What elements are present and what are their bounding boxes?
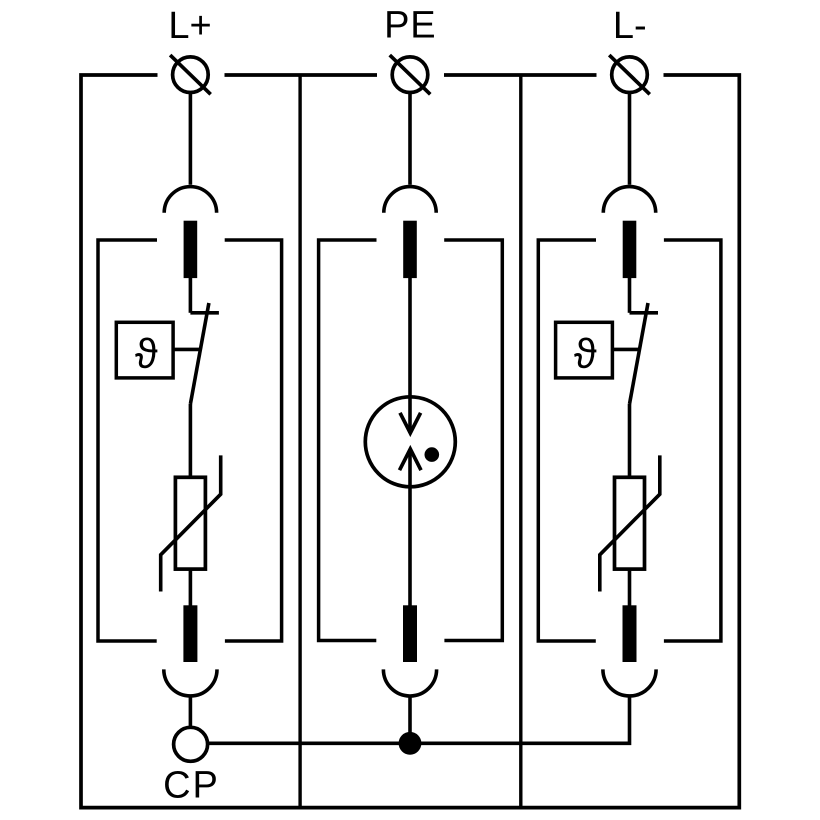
- svg-text:PE: PE: [384, 4, 436, 46]
- wire varistor to pin L+: [189, 569, 193, 606]
- wire CP bus: [208, 696, 630, 743]
- module inner box PE: [319, 240, 503, 641]
- svg-text:CP: CP: [163, 764, 220, 806]
- junction dot PE: [399, 732, 422, 755]
- wire terminal PE down: [408, 92, 412, 185]
- wire varistor to pin L-: [628, 569, 632, 606]
- varistor L-: [600, 455, 660, 591]
- enclosure outer border: [81, 75, 739, 808]
- wire spark gap to pin PE: [408, 449, 412, 606]
- wire terminal L+ down: [189, 92, 193, 185]
- wire switch to varistor L-: [628, 404, 632, 478]
- svg-text:L-: L-: [613, 5, 647, 47]
- wire pin to switch L+: [189, 277, 193, 313]
- mechanical link L+: [173, 348, 201, 352]
- spark gap trigger dot: [425, 447, 440, 462]
- thermal disconnect switch L-: [630, 303, 659, 404]
- wire PE arc down to junction: [408, 696, 412, 743]
- spark gap PE: [365, 397, 455, 487]
- divider wall between L+ and PE sections: [298, 75, 301, 808]
- thermal disconnect switch L+: [190, 303, 219, 404]
- svg-text:ϑ: ϑ: [135, 330, 158, 377]
- module inner box L-: [538, 240, 721, 641]
- plug socket arc bottom PE: [383, 669, 436, 696]
- plug socket arc bottom L-: [603, 669, 656, 696]
- wire pin to switch L-: [628, 277, 632, 313]
- contact pin bottom L-: [623, 605, 637, 662]
- terminal L-: [609, 55, 650, 94]
- terminal L+: [170, 55, 211, 94]
- plug socket arc top PE: [384, 187, 436, 213]
- wire terminal L- down: [628, 92, 632, 185]
- wire arc to CP terminal: [189, 696, 193, 727]
- plug socket arc top L-: [603, 187, 655, 213]
- wire switch to varistor L+: [189, 404, 193, 478]
- divider wall between PE and L- sections: [519, 75, 522, 808]
- CP terminal circle: [174, 727, 208, 761]
- wire PE to spark gap: [408, 277, 412, 433]
- thermal response element box L-: [556, 322, 613, 378]
- plug socket arc top L+: [164, 187, 216, 213]
- contact pin top PE: [403, 221, 417, 278]
- svg-text:ϑ: ϑ: [574, 330, 597, 377]
- module inner box L+: [98, 240, 282, 641]
- contact pin bottom L+: [183, 605, 197, 662]
- thermal response element box L+: [116, 322, 173, 378]
- contact pin top L-: [623, 221, 637, 278]
- terminal PE: [390, 55, 431, 94]
- contact pin top L+: [184, 221, 198, 278]
- plug socket arc bottom L+: [164, 669, 217, 696]
- contact pin bottom PE: [403, 605, 417, 662]
- varistor L+: [161, 455, 221, 591]
- svg-text:L+: L+: [168, 5, 211, 47]
- mechanical link L-: [612, 348, 640, 352]
